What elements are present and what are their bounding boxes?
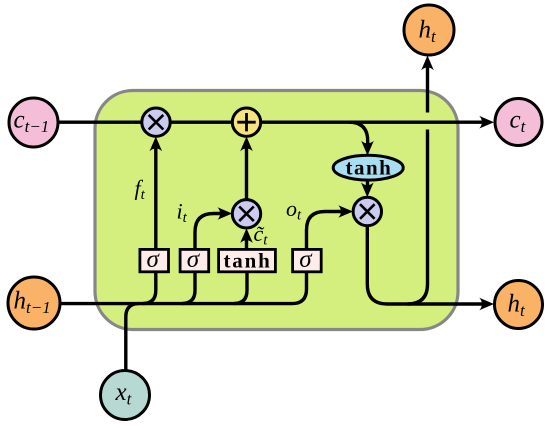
arrowhead into c_t xyxy=(479,116,494,129)
svg-text:tanh: tanh xyxy=(224,249,272,273)
gate multiply right xyxy=(353,197,381,225)
wire c-line multiply to plus xyxy=(171,120,234,123)
wire sigma2 riser xyxy=(182,272,195,304)
box sigma 2 xyxy=(180,246,209,273)
svg-text:tanh: tanh xyxy=(346,156,393,180)
svg-text:σ: σ xyxy=(147,246,161,273)
arrowhead into multiply gate 1 xyxy=(150,137,163,152)
arrowhead into multiply-mid bottom xyxy=(240,228,253,243)
node h_t right xyxy=(495,281,543,329)
arrowhead into multiply-right top xyxy=(361,183,374,198)
wire c-line plus to c_t xyxy=(261,120,482,123)
arrowhead into plus gate xyxy=(240,137,253,152)
wire x_t line up with elbow into trunk xyxy=(126,304,139,371)
wire c-line from c_{t-1} to multiply gate xyxy=(57,120,142,123)
arrowhead into multiply-right left xyxy=(338,205,353,218)
box tanh xyxy=(219,249,276,273)
node c_t xyxy=(495,99,542,146)
wire tanh box riser xyxy=(234,272,247,304)
arrowhead into h_t right xyxy=(479,298,494,311)
tanh ellipse xyxy=(333,155,403,180)
node x_t xyxy=(101,371,150,420)
wire o-curve sigma3 to multiply-right xyxy=(307,212,345,250)
arrowhead into tanh ellipse xyxy=(361,141,374,156)
svg-text:σ: σ xyxy=(187,246,201,273)
arrowhead into multiply-mid left xyxy=(218,207,233,220)
arrowhead into h_t top xyxy=(421,56,434,71)
wire i-curve sigma2 to multiply-mid xyxy=(195,214,223,250)
wire branch up to h_t top upper part xyxy=(426,64,429,113)
wire h-trunk from h_{t-1} xyxy=(60,272,307,304)
gate plus xyxy=(232,108,260,136)
node h_{t-1} xyxy=(8,277,60,329)
box sigma 3 xyxy=(293,246,322,273)
gate multiply 1 xyxy=(142,108,170,136)
svg-text:σ: σ xyxy=(299,246,313,273)
wire output multiply-right down and right to h_t xyxy=(367,226,482,304)
wire branch down to tanh ellipse xyxy=(349,122,368,145)
wire riser multiply-mid to plus xyxy=(245,147,248,199)
node c_{t-1} xyxy=(9,98,58,147)
gate multiply mid xyxy=(232,200,260,228)
cell body rounded rectangle xyxy=(95,91,458,330)
node h_t top xyxy=(404,5,454,55)
wire ctilde riser tanh box to multiply-mid xyxy=(245,239,248,249)
wire f-line sigma1 to multiply gate xyxy=(154,147,157,249)
wire sigma1 riser xyxy=(143,272,156,304)
box sigma 1 xyxy=(140,246,169,273)
wire branch up to h_t top lower part xyxy=(408,130,428,305)
wire tanh ellipse to multiply-right xyxy=(366,180,369,188)
